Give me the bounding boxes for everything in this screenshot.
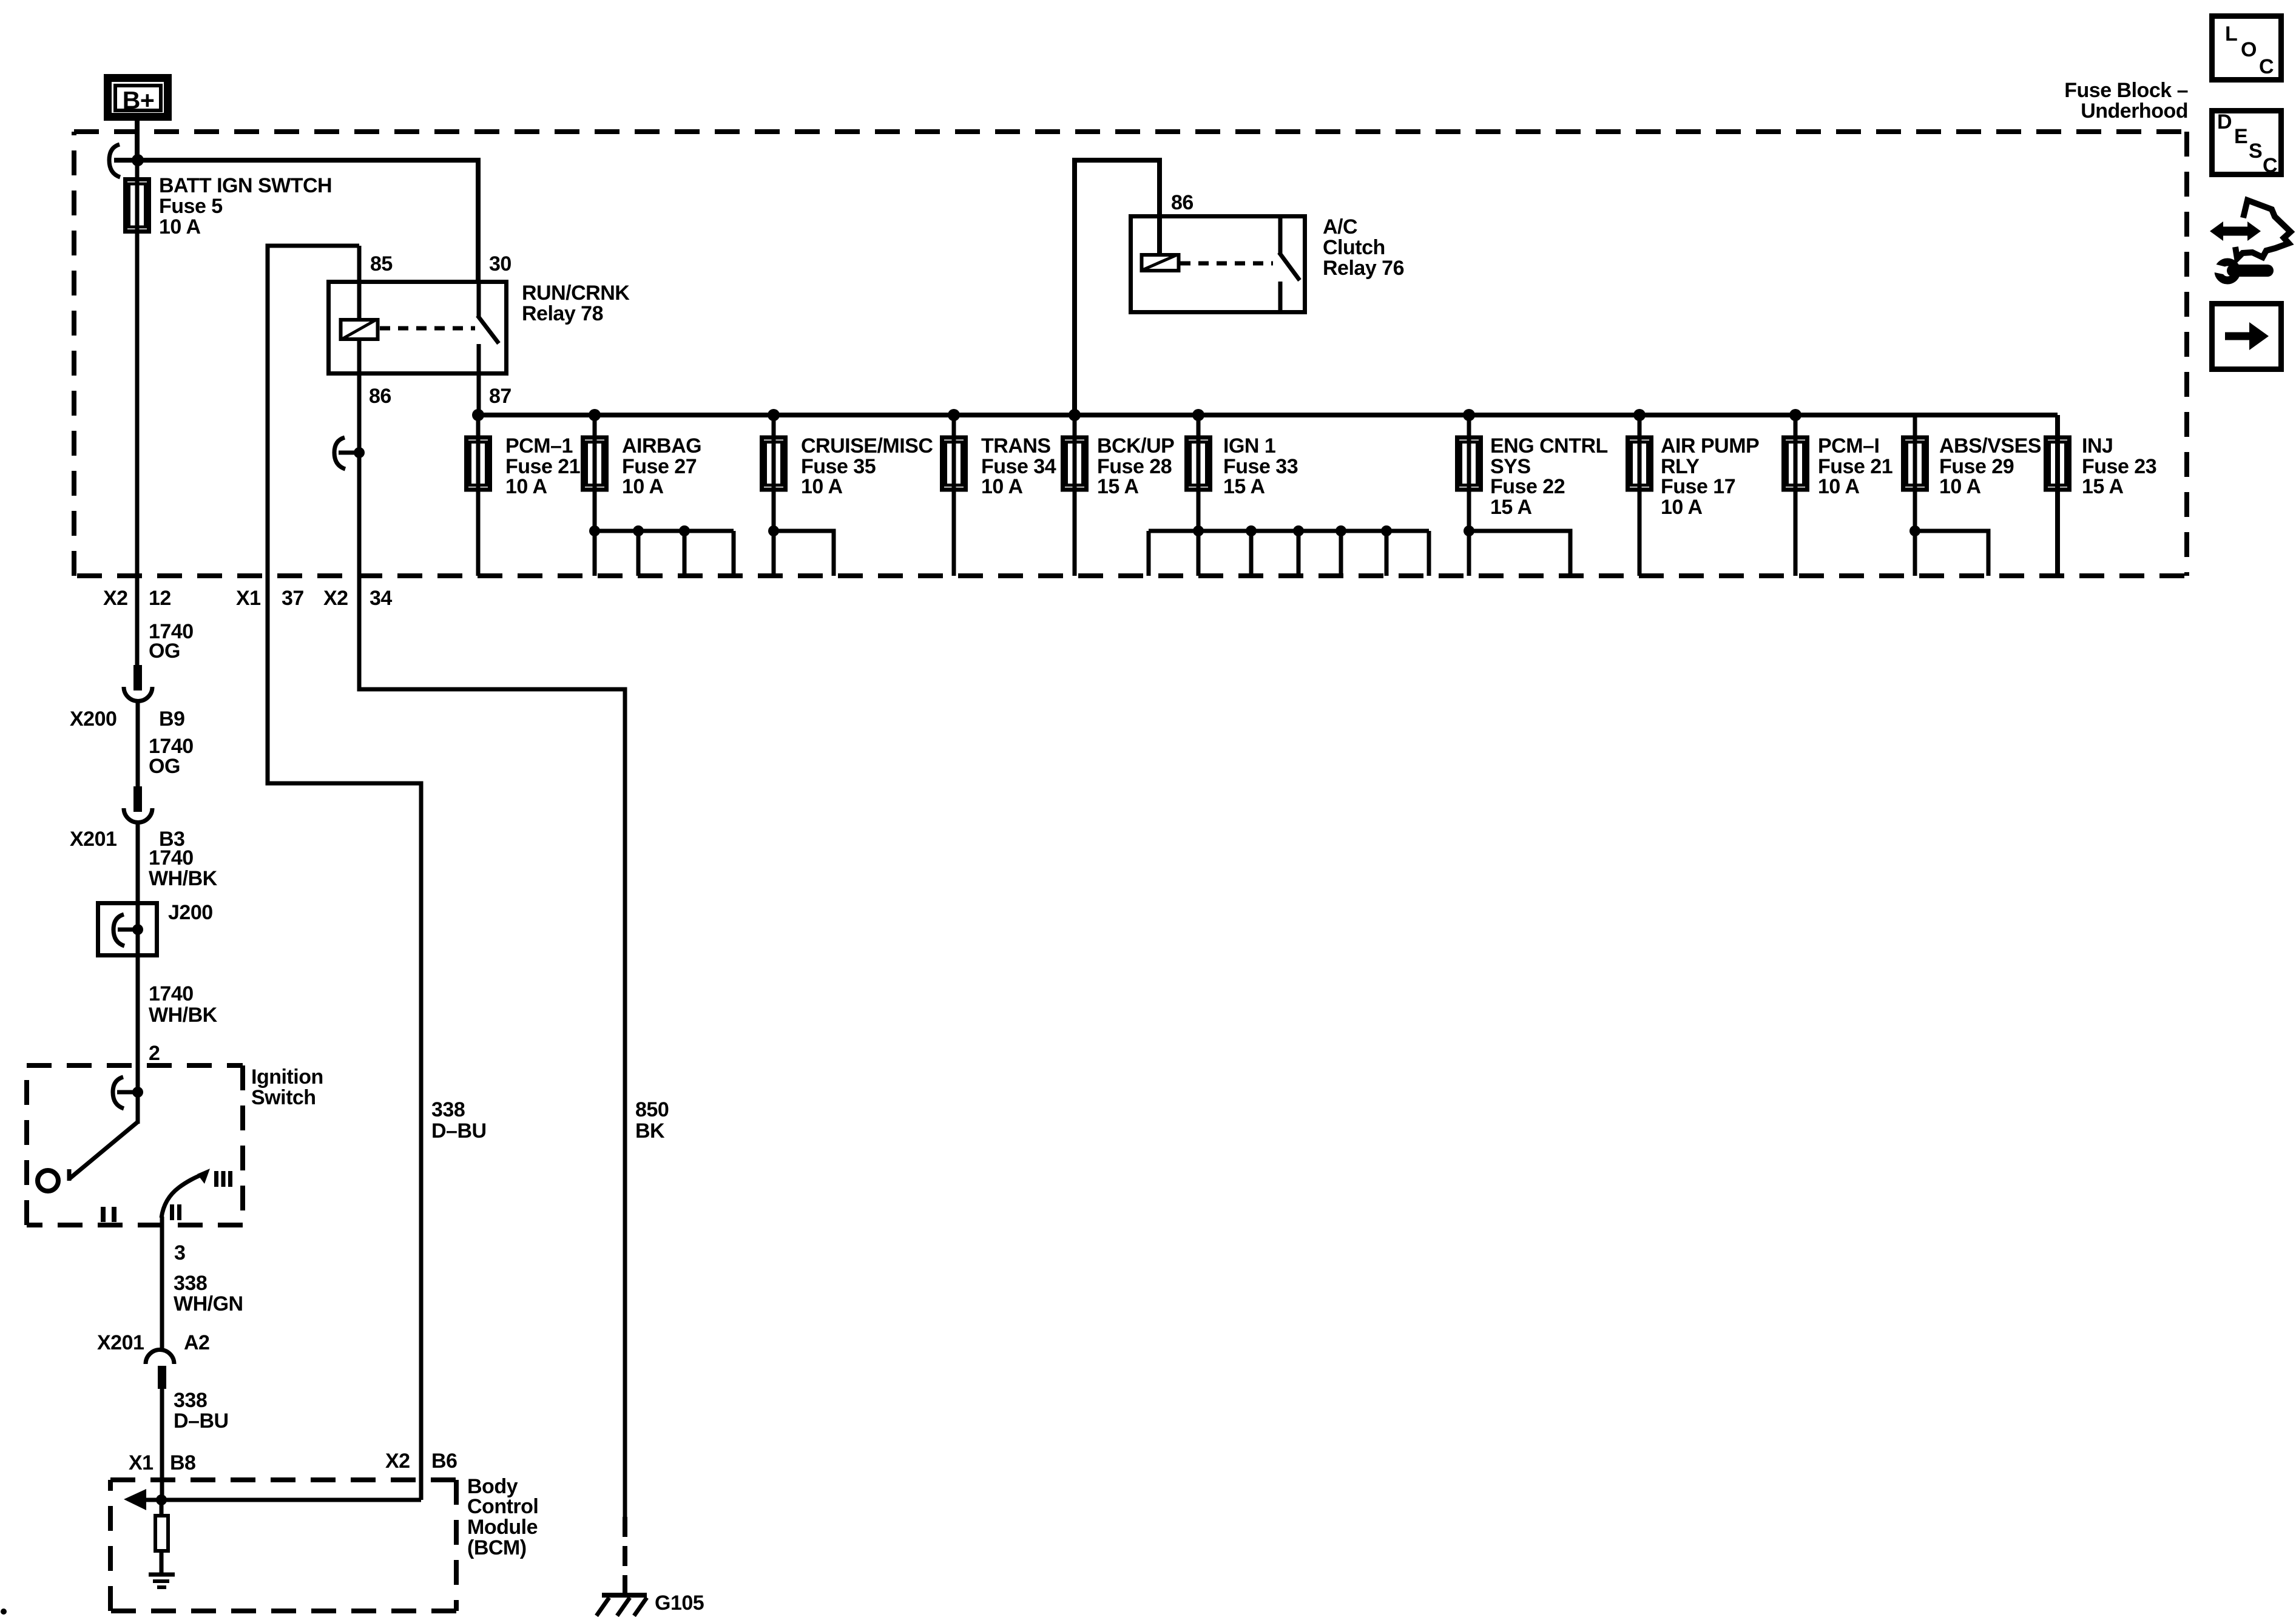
wire relay pin 86 to G105 (850 BK) (359, 341, 625, 1517)
wire X201 to J200 (136, 823, 140, 903)
svg-text:10 A: 10 A (1818, 475, 1860, 498)
svg-text:15 A: 15 A (2082, 475, 2124, 498)
label IGN 1 Fuse 33 15 A (1223, 434, 1298, 498)
relay 76 coil (1142, 255, 1179, 271)
node IGN 1 bus (1192, 409, 1204, 421)
svg-text:X1: X1 (129, 1451, 154, 1474)
label X2 B6 (385, 1450, 457, 1473)
svg-text:15 A: 15 A (1223, 475, 1265, 498)
wire A/C relay feed from fuse bus (1075, 160, 1160, 415)
svg-text:X2: X2 (323, 587, 348, 610)
label ENG CNTRL SYS Fuse 22 15 A (1490, 434, 1608, 519)
svg-text:CRUISE/MISC: CRUISE/MISC (801, 434, 933, 457)
svg-text:A/C: A/C (1323, 215, 1357, 238)
label X1 B8 (129, 1451, 195, 1474)
svg-text:ENG CNTRL: ENG CNTRL (1490, 434, 1608, 457)
fuse F33 IGN 1 (1187, 415, 1210, 576)
connector X201 A2 (146, 1349, 174, 1389)
relay 78 contact: pin30 stub and blade (478, 280, 499, 415)
ground comb under CRUISE (768, 525, 834, 576)
svg-text:Module: Module (467, 1516, 538, 1539)
node pin 87 bus (472, 409, 484, 421)
svg-text:OG: OG (149, 755, 180, 778)
label BCK/UP Fuse 28 15 A (1097, 434, 1174, 498)
svg-text:Fuse 17: Fuse 17 (1661, 475, 1735, 498)
svg-text:Control: Control (467, 1495, 538, 1518)
ground comb under ENG CNTRL (1464, 525, 1570, 576)
arrow into BCM (124, 1489, 146, 1510)
wire BCM internal B6 to arrow (146, 1498, 421, 1502)
label wire 850 BK (635, 1098, 669, 1143)
svg-text:IGN 1: IGN 1 (1223, 434, 1275, 457)
relay U78 RUN/CRNK box (329, 282, 507, 374)
svg-text:Underhood: Underhood (2081, 100, 2188, 123)
splice hook at B+ junction (109, 144, 120, 177)
icon wrench (2212, 262, 2267, 280)
relay 76 dashed actuator link (1180, 262, 1273, 266)
relay 78 coil (341, 320, 378, 339)
label TRANS Fuse 34 10 A (981, 434, 1056, 498)
fuse F34 TRANS (942, 415, 966, 576)
node B+ bus junction (132, 154, 144, 166)
svg-text:WH/BK: WH/BK (149, 1004, 218, 1027)
svg-text:S: S (2249, 140, 2262, 163)
svg-text:34: 34 (370, 587, 392, 610)
ground G105 (596, 1595, 647, 1616)
relay U76 A/C Clutch box (1131, 217, 1305, 312)
svg-text:Fuse 5: Fuse 5 (159, 195, 223, 218)
label wire 1740 WH/BK (2) (149, 982, 218, 1027)
position marks II (right) (170, 1204, 181, 1220)
svg-text:X1: X1 (236, 587, 261, 610)
svg-text:X201: X201 (70, 828, 116, 851)
icon DESC box (2212, 110, 2281, 177)
svg-text:BATT IGN SWTCH: BATT IGN SWTCH (159, 174, 332, 197)
label wire 1740 WH/BK (149, 846, 218, 890)
splice hook inside J200 (113, 914, 143, 946)
fuse F5 BATT IGN SWTCH (126, 180, 149, 232)
icon arrow box (2212, 304, 2281, 370)
svg-text:L: L (2225, 22, 2237, 46)
svg-text:338: 338 (431, 1098, 465, 1121)
fuse F17 AIR PUMP RLY (1628, 415, 1652, 576)
svg-text:TRANS: TRANS (981, 434, 1051, 457)
svg-text:(BCM): (BCM) (467, 1536, 527, 1559)
svg-text:C: C (2259, 55, 2274, 78)
label Ignition Switch (251, 1065, 323, 1109)
svg-text:X2: X2 (103, 587, 128, 610)
label X200 B9 (70, 707, 184, 731)
fuse bus from relay pin 87 (478, 413, 2058, 417)
svg-text:ABS/VSES: ABS/VSES (1939, 434, 2041, 457)
svg-text:1740: 1740 (149, 982, 194, 1005)
terminal B+ (108, 78, 168, 117)
svg-text:X2: X2 (385, 1450, 410, 1473)
icon LOC box (2212, 16, 2281, 80)
svg-text:A2: A2 (184, 1331, 209, 1354)
svg-text:15 A: 15 A (1490, 496, 1532, 519)
fuse F21 PCM-1 (467, 415, 490, 576)
svg-text:10 A: 10 A (622, 475, 664, 498)
wire pin 2 into switch (136, 1066, 140, 1124)
icon harness outline (2235, 200, 2291, 258)
svg-text:10 A: 10 A (159, 215, 201, 238)
label RUN/CRNK Relay 78 (522, 282, 630, 325)
svg-text:PCM–1: PCM–1 (505, 434, 573, 457)
ground comb under ABS/VSES (1909, 525, 1988, 576)
label PCM-1 Fuse 21 10 A (505, 434, 580, 498)
label INJ Fuse 23 15 A (2082, 434, 2156, 498)
fuse F22 ENG CNTRL SYS (1457, 415, 1481, 576)
svg-text:D–BU: D–BU (431, 1119, 487, 1143)
fuse F29 ABS/VSES (1903, 415, 1927, 576)
svg-text:J200: J200 (168, 901, 213, 924)
svg-text:Relay 76: Relay 76 (1323, 257, 1404, 280)
svg-text:Ignition: Ignition (251, 1065, 323, 1089)
label AIR PUMP RLY Fuse 17 10 A (1661, 434, 1759, 519)
svg-text:10 A: 10 A (1939, 475, 1981, 498)
svg-text:AIRBAG: AIRBAG (622, 434, 701, 457)
ground comb under AIRBAG (589, 525, 734, 576)
svg-text:PCM–I: PCM–I (1818, 434, 1879, 457)
svg-text:O: O (2241, 38, 2257, 61)
relay 78 dashed actuator link (380, 326, 475, 331)
node PCM-I bus (1789, 409, 1801, 421)
wire B+ down to bus (135, 121, 140, 160)
svg-text:15 A: 15 A (1097, 475, 1139, 498)
wire B+ bus to relay pin 30 (114, 160, 478, 280)
svg-text:87: 87 (489, 385, 512, 408)
svg-text:B9: B9 (159, 707, 184, 731)
label CRUISE/MISC Fuse 35 10 A (801, 434, 933, 498)
svg-text:D: D (2217, 110, 2232, 133)
label Fuse Block - Underhood (2064, 79, 2188, 123)
label wire 1740 OG (2) (149, 735, 194, 778)
svg-text:OG: OG (149, 640, 180, 663)
svg-text:338: 338 (174, 1272, 207, 1295)
svg-text:AIR PUMP: AIR PUMP (1661, 434, 1759, 457)
svg-text:WH/BK: WH/BK (149, 867, 218, 890)
svg-text:10 A: 10 A (1661, 496, 1703, 519)
svg-text:Fuse 22: Fuse 22 (1490, 475, 1565, 498)
label wire 1740 OG (149, 620, 194, 663)
svg-text:86: 86 (1171, 191, 1194, 214)
svg-text:INJ: INJ (2082, 434, 2113, 457)
wire through J200 to ignition switch (136, 903, 140, 1066)
label wire 338 WH/GN (174, 1272, 243, 1315)
label AIRBAG Fuse 27 10 A (622, 434, 701, 498)
svg-text:B+: B+ (123, 86, 155, 114)
position marks III (214, 1171, 232, 1187)
icon harness double arrow (2210, 221, 2261, 241)
svg-text:10 A: 10 A (801, 475, 843, 498)
wire pin 3 out of switch to X201 A2 (160, 1217, 164, 1352)
label X201 B3 (70, 828, 184, 851)
svg-text:Relay 78: Relay 78 (522, 302, 603, 325)
label wire 338 D-BU (long) (431, 1098, 487, 1143)
label PCM-I Fuse 21 10 A (1818, 434, 1893, 498)
svg-text:85: 85 (370, 252, 393, 275)
svg-text:37: 37 (282, 587, 304, 610)
connector X200 B9 (124, 665, 152, 701)
svg-text:BK: BK (635, 1119, 665, 1143)
label X201 A2 (97, 1331, 209, 1354)
svg-text:2: 2 (149, 1042, 160, 1065)
svg-text:BCK/UP: BCK/UP (1097, 434, 1174, 457)
relay 78 coil wire pin 85 to pin 86 (357, 246, 362, 318)
node CRUISE bus (768, 409, 780, 421)
dashed wire 850 BK to G105 (623, 1517, 627, 1595)
label BATT IGN SWTCH Fuse 5 10 A (159, 174, 332, 238)
svg-text:E: E (2234, 125, 2247, 148)
ignition switch contact circle (38, 1170, 58, 1191)
splice hook inside ignition switch (113, 1077, 143, 1109)
label wire 338 D-BU (174, 1389, 229, 1433)
node ENG CNTRL bus (1463, 409, 1475, 421)
splice J200 box (98, 903, 157, 956)
svg-text:Clutch: Clutch (1323, 236, 1385, 259)
ignition switch dashed box (27, 1065, 243, 1225)
svg-text:WH/GN: WH/GN (174, 1292, 243, 1315)
position marks II (left) (101, 1207, 116, 1222)
wire relay pin 85 to BCM X2 B6 (338 D-BU) (268, 246, 421, 1500)
svg-text:30: 30 (489, 252, 512, 275)
fuse block underhood dashed border (74, 132, 2187, 576)
label X2 34 (323, 587, 392, 610)
connector X201 B3 (124, 786, 152, 823)
fuse F35 CRUISE/MISC (762, 415, 786, 576)
svg-text:10 A: 10 A (981, 475, 1023, 498)
BCM internal load (155, 1500, 168, 1573)
node BCM B8 junction (156, 1494, 167, 1505)
svg-text:Switch: Switch (251, 1086, 316, 1109)
svg-text:G105: G105 (655, 1592, 704, 1615)
svg-text:Fuse Block –: Fuse Block – (2064, 79, 2188, 102)
label Body Control Module (BCM) (467, 1475, 538, 1559)
BCM dashed box (110, 1480, 456, 1611)
svg-text:X201: X201 (97, 1331, 144, 1354)
node AIR PUMP bus (1633, 409, 1646, 421)
svg-text:B8: B8 (170, 1451, 195, 1474)
fuse F27 AIRBAG (583, 415, 607, 576)
svg-text:12: 12 (149, 587, 171, 610)
fuse F21 PCM-I (1784, 415, 1808, 576)
ignition switch rotation arc with arrow (161, 1169, 210, 1218)
svg-text:D–BU: D–BU (174, 1409, 229, 1433)
node AIRBAG bus (589, 409, 601, 421)
label A/C Clutch Relay 76 (1323, 215, 1404, 280)
svg-text:850: 850 (635, 1098, 669, 1121)
svg-text:338: 338 (174, 1389, 207, 1412)
wire fuse 5 to X200 connector (crosses border, X2 12) (135, 160, 140, 666)
relay 76 contact stub and blade (1279, 216, 1300, 312)
svg-text:86: 86 (369, 385, 391, 408)
svg-text:RUN/CRNK: RUN/CRNK (522, 282, 630, 305)
svg-text:C: C (2263, 154, 2277, 177)
fuse F28 BCK/UP (on B+ feed wire) (1063, 415, 1087, 576)
splice below relay pin 86 (334, 437, 365, 469)
ignition switch blade (69, 1122, 138, 1181)
svg-text:X200: X200 (70, 707, 116, 731)
wire X201 A2 to BCM X1 B8 (160, 1389, 164, 1500)
label X1 37 (236, 587, 304, 610)
label ABS/VSES Fuse 29 10 A (1939, 434, 2041, 498)
svg-text:B6: B6 (431, 1450, 457, 1473)
svg-text:3: 3 (174, 1241, 185, 1264)
ground symbol inside BCM (149, 1575, 175, 1587)
fuse F23 INJ (bus corner drop) (2046, 415, 2070, 576)
page artifact dot (1, 1609, 7, 1615)
node BCK/UP bus (1069, 409, 1081, 421)
svg-text:1740: 1740 (149, 846, 194, 869)
svg-text:10 A: 10 A (505, 475, 547, 498)
label X2 12 (103, 587, 171, 610)
node TRANS bus (948, 409, 960, 421)
ground comb under IGN 1 (1149, 525, 1429, 576)
wire X200 to X201 (136, 701, 140, 788)
